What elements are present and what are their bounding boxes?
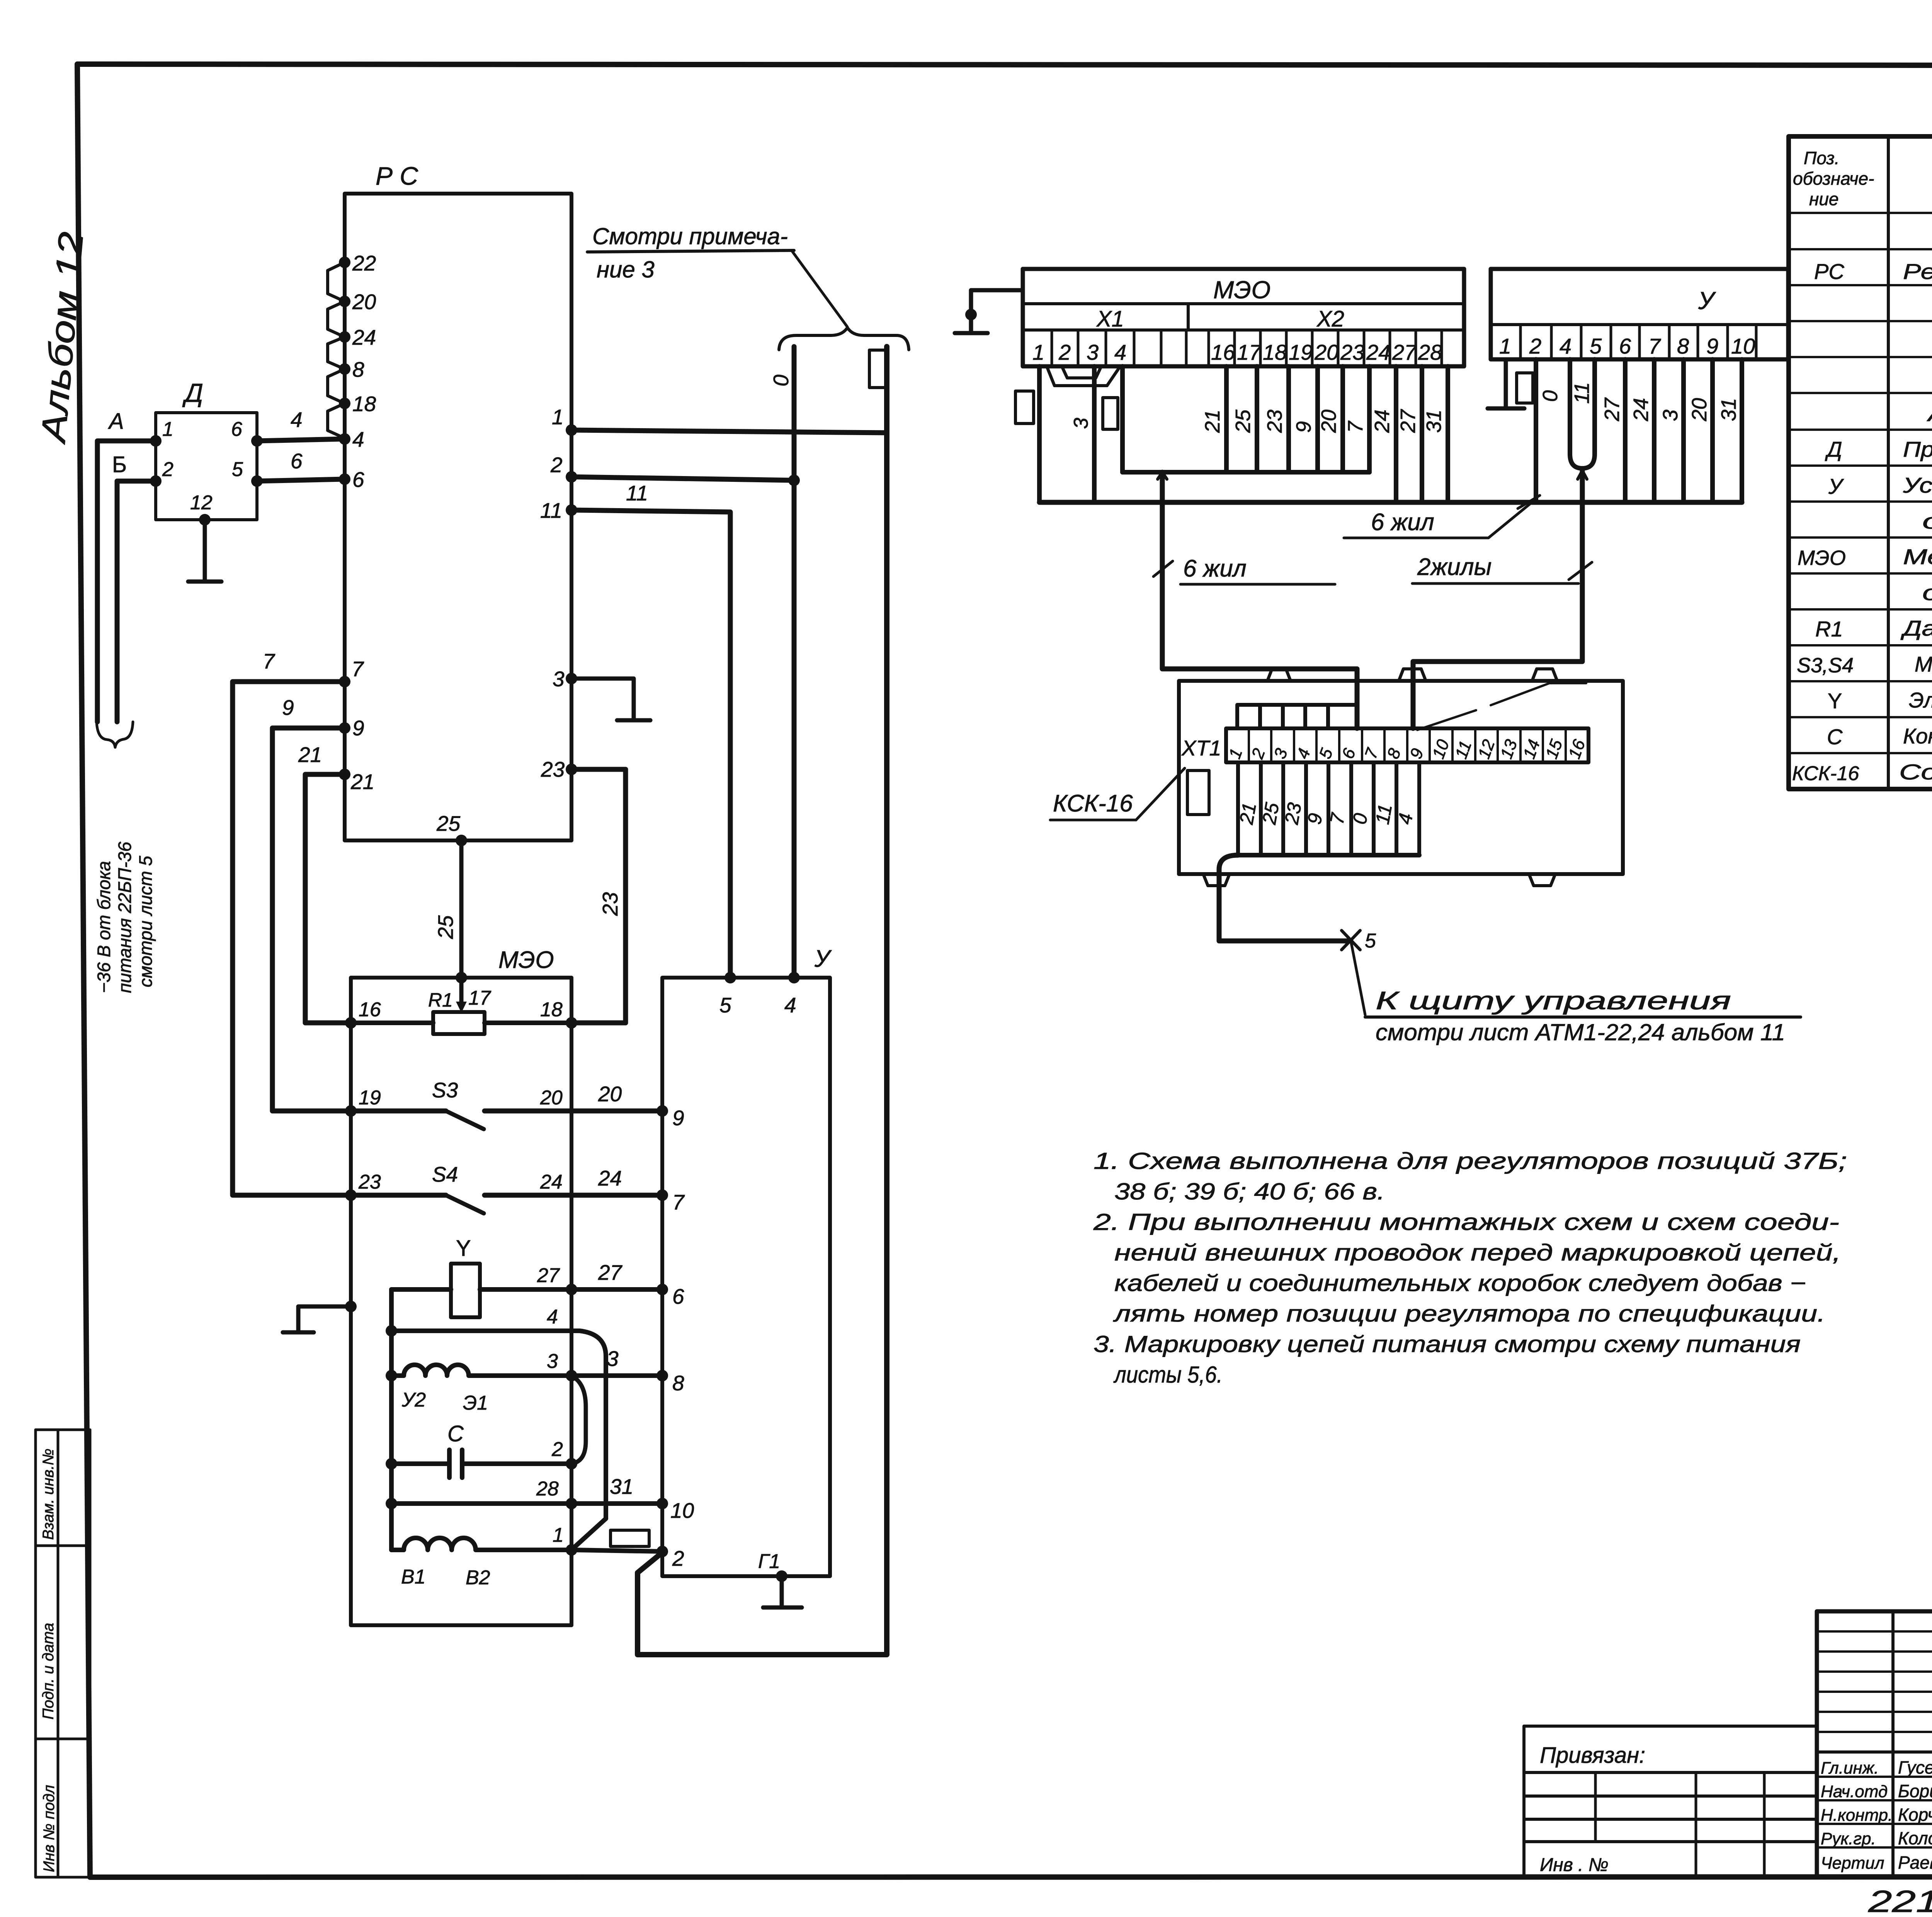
РС right pins dots xyxy=(566,424,577,775)
svg-text:2: 2 xyxy=(1058,340,1071,364)
svg-text:20: 20 xyxy=(1317,410,1340,433)
X mark (cable break) with label 5 xyxy=(1342,930,1360,950)
svg-text:В2: В2 xyxy=(466,1567,490,1589)
svg-text:2: 2 xyxy=(550,453,563,477)
svg-text:питания 22БП-36: питания 22БП-36 xyxy=(114,841,135,993)
svg-text:смотри лист 5: смотри лист 5 xyxy=(135,856,156,987)
title block grid xyxy=(1817,1611,1932,1877)
svg-text:Гл.инж.: Гл.инж. xyxy=(1821,1759,1879,1778)
svg-text:27: 27 xyxy=(1396,409,1420,433)
svg-text:5: 5 xyxy=(1590,334,1602,358)
dash leader across КСК top right xyxy=(1417,683,1586,730)
svg-text:КСК-16: КСК-16 xyxy=(1053,790,1133,817)
svg-text:1: 1 xyxy=(162,418,173,441)
svg-text:ние: ние xyxy=(1809,189,1838,209)
cable marker rect above wire 1 xyxy=(611,1530,649,1546)
svg-text:31: 31 xyxy=(1717,398,1740,421)
svg-text:28: 28 xyxy=(1418,340,1442,364)
svg-text:Р С: Р С xyxy=(376,162,418,190)
svg-text:16: 16 xyxy=(1211,340,1235,364)
svg-text:27: 27 xyxy=(1600,397,1624,422)
svg-text:2: 2 xyxy=(162,458,173,481)
svg-text:3: 3 xyxy=(547,1350,558,1373)
МЭО strip cell dividers xyxy=(1052,330,1442,366)
svg-text:12: 12 xyxy=(190,492,213,514)
svg-text:6: 6 xyxy=(1619,334,1631,358)
svg-text:4: 4 xyxy=(1560,334,1571,358)
У terminal strip outer box xyxy=(1491,269,1788,359)
svg-text:18: 18 xyxy=(540,998,563,1021)
zigzag divider on РС left pins 22-4 xyxy=(328,262,345,438)
svg-text:27: 27 xyxy=(1392,340,1417,364)
long collecting bus xyxy=(1039,500,1742,505)
У strip cell dividers xyxy=(1520,325,1756,359)
РС left pin dots xyxy=(339,257,350,485)
svg-text:Y: Y xyxy=(1828,689,1842,713)
svg-text:обозначе-: обозначе- xyxy=(1793,168,1874,189)
svg-text:31: 31 xyxy=(610,1475,633,1499)
margin box Взам. инв.№ xyxy=(36,1430,90,1546)
svg-text:У: У xyxy=(814,946,832,972)
X2 drop wires 21,25,23,9,20,7 to upper bus xyxy=(1224,366,1229,472)
svg-text:Б: Б xyxy=(112,452,127,477)
svg-text:38 б; 39 б; 40 б; 66 в.: 38 б; 39 б; 40 б; 66 в. xyxy=(1114,1179,1385,1204)
svg-text:4: 4 xyxy=(547,1306,558,1328)
svg-text:3: 3 xyxy=(1070,418,1092,429)
svg-text:22189 - 1.3: 22189 - 1.3 xyxy=(1868,1884,1932,1917)
margin box Подп. и дата xyxy=(36,1546,90,1739)
XT1 top stubs from 6жил cable xyxy=(1237,705,1357,728)
svg-text:7: 7 xyxy=(1648,334,1661,358)
svg-text:ние 3: ние 3 xyxy=(597,257,655,282)
КСК top mounting tabs xyxy=(1267,669,1291,681)
svg-text:X1: X1 xyxy=(1096,306,1124,332)
svg-text:У: У xyxy=(1698,287,1716,315)
svg-text:смотри лист АТМ1-22,24 а: смотри лист АТМ1-22,24 альбом 11 xyxy=(1376,1019,1785,1045)
svg-text:Взам. инв.№: Взам. инв.№ xyxy=(40,1449,57,1540)
svg-text:6: 6 xyxy=(231,418,242,441)
svg-text:23: 23 xyxy=(1281,801,1306,827)
У top pins 5,4 xyxy=(724,972,736,983)
svg-text:Электромагнит: Электромагнит xyxy=(1909,688,1932,712)
svg-text:У2: У2 xyxy=(401,1389,426,1411)
svg-text:1. Схема выполнена: 1. Схема выполнена для регуляторов позиц… xyxy=(1094,1148,1847,1174)
svg-text:23: 23 xyxy=(358,1171,381,1193)
X2 drop wires 24,27,31 to long bus xyxy=(1394,366,1398,502)
X1 cell1 drop wire xyxy=(1037,366,1042,502)
6жил cable drop to КСК xyxy=(1162,472,1357,728)
svg-text:онный У29.3: онный У29.3 xyxy=(1922,509,1932,533)
wire 2 (РС2 to 0-net riser) xyxy=(571,477,794,480)
X1 cell3 drop wire (label 3) xyxy=(1092,366,1097,502)
svg-text:6: 6 xyxy=(672,1284,684,1308)
svg-text:25: 25 xyxy=(1231,409,1255,433)
svg-text:4: 4 xyxy=(1114,340,1126,364)
svg-text:20: 20 xyxy=(1314,340,1338,364)
Привязан block xyxy=(1524,1726,1817,1877)
capacitor C xyxy=(391,1450,571,1478)
svg-text:9: 9 xyxy=(282,696,294,720)
wire 3 with ground (РС3) xyxy=(571,679,650,720)
КСК bottom mounting tabs xyxy=(1203,874,1230,886)
svg-text:1: 1 xyxy=(1499,334,1511,358)
wire Б (supply to Д pin2) xyxy=(117,481,156,722)
svg-text:2: 2 xyxy=(1529,334,1541,358)
svg-text:РС: РС xyxy=(1814,259,1844,284)
svg-text:8: 8 xyxy=(672,1371,684,1395)
label 6 жил (cable to КСК) xyxy=(1153,561,1173,577)
svg-text:5: 5 xyxy=(232,458,243,481)
wire 9 (РС9 to МЭО19) xyxy=(272,728,351,1111)
svg-text:8: 8 xyxy=(1677,334,1689,358)
У cell2 drop (net 0) xyxy=(1534,359,1538,502)
wire 6 (Д pin5 to РС pin6) xyxy=(257,479,345,481)
svg-text:17: 17 xyxy=(468,987,492,1009)
svg-text:27: 27 xyxy=(537,1264,560,1287)
svg-text:25: 25 xyxy=(434,915,457,939)
svg-text:ХТ1: ХТ1 xyxy=(1181,736,1221,760)
svg-text:Борисов: Борисов xyxy=(1898,1781,1932,1801)
svg-text:R1: R1 xyxy=(428,989,453,1011)
svg-text:21: 21 xyxy=(350,770,374,794)
svg-text:18: 18 xyxy=(352,392,376,416)
wire 1 (РС1 to right riser) xyxy=(571,430,887,433)
svg-text:20: 20 xyxy=(352,290,376,314)
regulator block РС xyxy=(345,194,571,840)
margin box Инв. № подл. xyxy=(36,1739,90,1877)
svg-text:листы 5,6.: листы 5,6. xyxy=(1113,1362,1223,1388)
svg-text:11: 11 xyxy=(626,481,648,505)
svg-text:10: 10 xyxy=(670,1499,694,1522)
svg-text:Смотри примеча-: Смотри примеча- xyxy=(592,223,788,249)
wire 7 (РС7 to МЭО23) xyxy=(233,682,351,1195)
svg-text:20: 20 xyxy=(598,1082,622,1106)
svg-text:23: 23 xyxy=(1263,410,1286,433)
upper gathering bus (6 жил) xyxy=(1122,470,1369,475)
svg-text:R1: R1 xyxy=(1815,617,1843,641)
svg-text:Поз.: Поз. xyxy=(1804,148,1840,168)
exit wire to control panel xyxy=(1219,855,1351,941)
svg-text:11: 11 xyxy=(540,498,562,522)
svg-text:Инв № подл: Инв № подл xyxy=(41,1785,58,1872)
switch S3 (19-20) xyxy=(351,1109,446,1114)
svg-text:Преобразователь „ Сапфир ": Преобразователь „ Сапфир " xyxy=(1903,437,1932,461)
ground drop from У cell1 xyxy=(1488,359,1524,408)
svg-text:7: 7 xyxy=(263,649,276,673)
svg-text:1: 1 xyxy=(553,1524,564,1546)
X1 plug notch shapes xyxy=(1047,366,1120,386)
X1 cell4 drop to upper bus xyxy=(1120,366,1125,472)
svg-text:24: 24 xyxy=(352,325,376,349)
switch S4 (23-24) xyxy=(351,1193,446,1198)
actuator block МЭО xyxy=(351,978,571,1625)
wire 4 (Д pin6 to РС pin4) xyxy=(257,439,345,441)
svg-text:3: 3 xyxy=(1087,340,1099,364)
svg-text:6 жил: 6 жил xyxy=(1371,509,1434,536)
svg-text:Н.контр.: Н.контр. xyxy=(1821,1806,1893,1825)
wire 27 (Y to У pin6) xyxy=(391,1287,451,1292)
svg-text:Нач.отд: Нач.отд xyxy=(1821,1782,1888,1801)
svg-text:5: 5 xyxy=(719,993,731,1017)
svg-text:−36 В от блока: −36 В от блока xyxy=(94,861,114,993)
svg-text:8: 8 xyxy=(352,357,364,381)
terminal strip XT1 xyxy=(1226,728,1588,762)
svg-text:7: 7 xyxy=(352,657,364,681)
svg-text:Д: Д xyxy=(1825,437,1842,461)
РС lower-left pins 7,9,21 xyxy=(339,676,350,687)
svg-text:24: 24 xyxy=(1366,340,1390,364)
svg-text:3: 3 xyxy=(607,1347,619,1371)
svg-text:21: 21 xyxy=(298,743,322,767)
svg-text:Соединительная коробка: Соединительная коробка КСК-16 xyxy=(1899,760,1932,784)
svg-text:3: 3 xyxy=(553,667,565,691)
svg-text:24: 24 xyxy=(1371,410,1394,433)
svg-text:6 жил: 6 жил xyxy=(1183,555,1247,582)
svg-text:Привязан:: Привязан: xyxy=(1540,1743,1645,1768)
svg-text:11: 11 xyxy=(1570,382,1594,404)
svg-text:S4: S4 xyxy=(432,1162,458,1186)
svg-text:лять номер позиции: лять номер позиции регулятора по специфи… xyxy=(1113,1301,1825,1327)
svg-text:24: 24 xyxy=(1629,398,1653,422)
resistor R1 with wiper 17 xyxy=(351,1021,433,1025)
svg-text:Чертил: Чертил xyxy=(1821,1854,1884,1873)
svg-text:22: 22 xyxy=(352,251,376,275)
svg-text:2. При выполнении монт: 2. При выполнении монтажных схем и схем … xyxy=(1093,1209,1839,1235)
inductor У2-Э1 xyxy=(391,1365,571,1376)
wire 21 (РС21 to МЭО16) xyxy=(305,774,351,1023)
marker rect inside КСК xyxy=(1187,771,1209,815)
svg-text:Гусева: Гусева xyxy=(1898,1757,1932,1778)
svg-text:МЭО: МЭО xyxy=(1798,546,1846,570)
connector X1 label xyxy=(1187,304,1190,330)
wire 3 (to У pin8) xyxy=(571,1373,662,1378)
svg-text:Раевская: Раевская xyxy=(1898,1852,1932,1873)
svg-text:4: 4 xyxy=(291,408,303,432)
leader to К щиту text xyxy=(1351,941,1365,1015)
svg-text:У: У xyxy=(1828,474,1844,498)
svg-text:24: 24 xyxy=(540,1171,563,1193)
svg-text:23: 23 xyxy=(1340,340,1364,364)
svg-text:Механизм электрический: Механизм электрический одно- xyxy=(1903,544,1932,569)
svg-text:МЭО: МЭО xyxy=(498,947,554,973)
svg-text:Регулирующий прибор Р: Регулирующий прибор РС 29.1.12 xyxy=(1903,259,1932,284)
marker rect at У cell1 drop xyxy=(1517,373,1533,403)
svg-text:нений внешних проводок: нений внешних проводок перед маркировкой… xyxy=(1114,1240,1841,1266)
wire 11 (РС11 to У pin5) xyxy=(571,510,730,978)
right riser (РС1 net, return loop to У pin2) xyxy=(638,347,887,1655)
svg-text:С: С xyxy=(447,1421,464,1446)
svg-text:Подп. и дата: Подп. и дата xyxy=(40,1623,57,1720)
wire 25 (РС bottom to R1 pin17) xyxy=(456,835,467,846)
svg-text:18: 18 xyxy=(1263,340,1287,364)
svg-text:4: 4 xyxy=(352,427,364,451)
svg-text:23: 23 xyxy=(541,757,565,781)
svg-text:4: 4 xyxy=(784,993,796,1017)
svg-text:Конденсатор: Конденсатор xyxy=(1903,724,1932,748)
amplifier block У xyxy=(662,978,830,1576)
svg-text:Инв . №: Инв . № xyxy=(1540,1855,1609,1875)
svg-text:В1: В1 xyxy=(401,1566,426,1588)
svg-text:9: 9 xyxy=(352,716,364,740)
svg-text:2жилы: 2жилы xyxy=(1417,554,1492,580)
svg-text:кабелей и соединительных: кабелей и соединительных коробок следует… xyxy=(1114,1270,1806,1296)
ground Г1 on У bottom xyxy=(776,1570,787,1582)
svg-text:Y: Y xyxy=(456,1236,471,1261)
У left pins xyxy=(656,1105,668,1557)
svg-text:25: 25 xyxy=(436,811,461,835)
cable marker rect on right riser xyxy=(869,350,886,388)
svg-text:16: 16 xyxy=(359,998,381,1021)
svg-text:1: 1 xyxy=(1032,340,1044,364)
svg-text:Усилитель мощности тр: Усилитель мощности трехпозици − xyxy=(1903,473,1932,497)
svg-text:21: 21 xyxy=(1235,801,1260,826)
svg-text:10: 10 xyxy=(1731,334,1755,358)
svg-text:5: 5 xyxy=(1365,930,1376,952)
svg-text:0: 0 xyxy=(1539,390,1562,402)
svg-text:3. Маркировку цепей пит: 3. Маркировку цепей питания смотри схему… xyxy=(1094,1331,1801,1357)
svg-text:Рук.гр.: Рук.гр. xyxy=(1821,1829,1876,1848)
svg-text:Корчкова: Корчкова xyxy=(1898,1805,1932,1825)
svg-text:А: А xyxy=(108,409,124,434)
brace over supply risers xyxy=(779,328,909,350)
svg-text:КСК-16: КСК-16 xyxy=(1792,762,1859,785)
brace at supply wire ends xyxy=(97,722,133,747)
ground lead from МЭО strip xyxy=(955,290,1023,333)
parts table grid xyxy=(1789,136,1932,789)
svg-text:7: 7 xyxy=(672,1190,685,1214)
svg-text:28: 28 xyxy=(536,1478,559,1500)
leader to supply brace xyxy=(792,251,847,327)
internal bus of МЭО xyxy=(389,1289,394,1550)
wire 4 (bus to node 1 via bend) xyxy=(391,1331,606,1549)
net 0 riser (to У pin4) xyxy=(792,347,797,978)
svg-text:МЭО: МЭО xyxy=(1213,276,1270,304)
svg-text:Э1: Э1 xyxy=(463,1392,488,1414)
svg-text:19: 19 xyxy=(1289,340,1313,364)
svg-text:S3,S4: S3,S4 xyxy=(1797,654,1854,677)
svg-text:21: 21 xyxy=(1201,410,1224,433)
svg-text:Микровыключатель: Микровыключатель xyxy=(1915,652,1932,676)
svg-text:9: 9 xyxy=(672,1106,684,1130)
wire A (supply to Д pin1) xyxy=(97,441,156,722)
svg-text:К щиту управления: К щиту управления xyxy=(1376,986,1731,1015)
svg-text:9: 9 xyxy=(1292,421,1315,433)
svg-text:Д: Д xyxy=(182,378,203,408)
wire 23 (РС23 to МЭО18) xyxy=(571,769,626,1023)
svg-text:Колосова: Колосова xyxy=(1898,1828,1932,1848)
svg-text:С: С xyxy=(1827,725,1843,749)
connection box КСК-16 outline xyxy=(1179,681,1623,874)
svg-text:9: 9 xyxy=(1706,334,1718,358)
У cells 4-5 pair loop (2 жилы, net 11) xyxy=(1570,359,1595,468)
МЭО terminal strip outer box xyxy=(1023,269,1464,366)
svg-text:оборотный МЭО: оборотный МЭО xyxy=(1922,580,1932,605)
transducer Д (Сапфир) xyxy=(156,413,257,520)
marker rect right of X1 drop xyxy=(1103,398,1118,429)
svg-text:X2: X2 xyxy=(1316,306,1344,332)
svg-text:20: 20 xyxy=(540,1087,563,1109)
ground at Д pin 12 xyxy=(188,520,221,582)
wire 28/31 (bus to У pin10) xyxy=(391,1501,662,1506)
inductor B1-B2 xyxy=(391,1538,571,1550)
svg-text:6: 6 xyxy=(352,468,364,492)
svg-text:27: 27 xyxy=(598,1260,623,1284)
svg-text:Датчик реостатный: Датчик реостатный xyxy=(1900,616,1932,640)
svg-text:23: 23 xyxy=(598,892,622,916)
svg-text:0: 0 xyxy=(769,374,793,386)
МЭО left pin dots 16,19,23 xyxy=(345,1017,357,1029)
svg-text:20: 20 xyxy=(1688,398,1711,422)
svg-text:11: 11 xyxy=(1371,803,1396,826)
svg-text:17: 17 xyxy=(1237,340,1262,364)
svg-text:2: 2 xyxy=(551,1438,563,1461)
svg-text:2: 2 xyxy=(672,1546,684,1570)
wire 1 (node1 to У pin2) xyxy=(571,1550,662,1551)
svg-text:S3: S3 xyxy=(432,1078,458,1102)
svg-text:24: 24 xyxy=(598,1166,622,1190)
svg-text:7: 7 xyxy=(1344,420,1367,433)
svg-text:31: 31 xyxy=(1422,410,1446,433)
ground stub on МЭО case xyxy=(345,1301,357,1312)
svg-text:3: 3 xyxy=(1659,410,1682,421)
link node3 to node2 xyxy=(571,1376,586,1464)
svg-text:19: 19 xyxy=(359,1087,381,1109)
У drops 27,24,3,20,31 to long bus xyxy=(1623,359,1628,502)
XT1 bottom column channels with net numbers xyxy=(1238,762,1419,855)
marker rect left of X1 drop xyxy=(1015,391,1034,424)
svg-text:25: 25 xyxy=(1258,801,1283,827)
svg-text:Г1: Г1 xyxy=(758,1550,780,1573)
2жилы cable drop to КСК xyxy=(1413,471,1582,728)
svg-text:6: 6 xyxy=(291,449,303,473)
electromagnet Y xyxy=(451,1264,480,1317)
svg-text:1: 1 xyxy=(552,405,564,429)
